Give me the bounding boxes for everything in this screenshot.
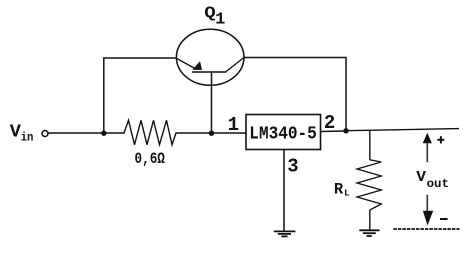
node B (base junction dot) (209, 131, 214, 136)
label RL (334, 180, 350, 198)
wire pin 3 down (283, 150, 285, 232)
wire RL to ground (369, 210, 371, 230)
ground reference dashed line (393, 228, 459, 230)
svg-text:1: 1 (228, 114, 239, 136)
transistor Q1 body (176, 29, 244, 85)
wire pin 2 to node C (321, 130, 347, 133)
op-amp U1 LM340-5 box (246, 115, 321, 150)
ground (RL) (359, 230, 379, 236)
transistor Q1 emitter diagonal (177, 59, 195, 69)
Vout down arrow (423, 195, 433, 226)
plus sign (437, 136, 444, 143)
svg-text:1: 1 (215, 11, 225, 30)
wire node C to output (346, 129, 459, 131)
node A (junction dot) (101, 131, 106, 136)
wire node C down to RL (369, 130, 371, 160)
svg-text:in: in (21, 131, 34, 145)
svg-text:V: V (416, 169, 426, 186)
Vout up arrow (423, 133, 432, 163)
label Vin (10, 122, 34, 145)
resistor RL (357, 160, 381, 210)
ground (pin 3) (274, 231, 296, 236)
node C (junction dot) (343, 128, 348, 133)
wire node A up to emitter (104, 58, 177, 133)
svg-text:2: 2 (324, 112, 335, 134)
wire collector to node C (244, 58, 346, 132)
resistor 0.6 ohm (104, 120, 246, 144)
transistor Q1 emitter arrow (PNP) (192, 61, 202, 70)
value label 0,6 ohm (135, 150, 165, 168)
input terminal (open circle) (42, 131, 48, 137)
label Q1 (204, 4, 225, 30)
svg-text:L: L (344, 187, 350, 198)
wire Vin to node A (48, 132, 103, 134)
wire base lead down to node B (211, 72, 213, 133)
svg-text:0,6Ω: 0,6Ω (135, 150, 165, 168)
svg-text:out: out (427, 177, 449, 191)
transistor Q1 collector diagonal (226, 58, 245, 73)
svg-text:R: R (334, 180, 344, 198)
minus sign (440, 218, 448, 220)
svg-text:LM340-5: LM340-5 (249, 125, 316, 145)
svg-text:3: 3 (287, 155, 298, 177)
label Vout (416, 169, 449, 191)
transistor Q1 base bar (192, 71, 227, 73)
